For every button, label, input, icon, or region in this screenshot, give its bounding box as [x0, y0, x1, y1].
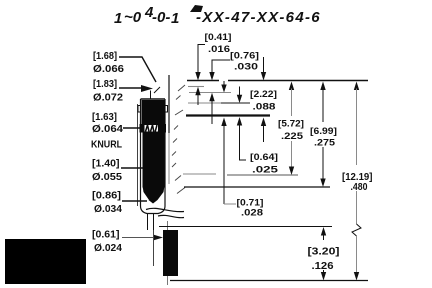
svg-text:[0.86]: [0.86]: [92, 191, 121, 202]
line L8 pcb top: [159, 226, 332, 228]
title part number right: [190, 5, 203, 12]
svg-text:[1.68]: [1.68]: [93, 51, 117, 62]
svg-text:Ø.066: Ø.066: [93, 64, 124, 75]
pin centerline above: [150, 91, 152, 100]
svg-text:.030: .030: [234, 62, 258, 72]
svg-text:[0.41]: [0.41]: [205, 32, 232, 42]
leader for [1.63]: [123, 127, 140, 129]
svg-text:[1.83]: [1.83]: [93, 79, 117, 90]
[3.20] stems and arrows: [321, 227, 326, 236]
pin body black: [143, 133, 165, 188]
svg-text:[3.20]: [3.20]: [308, 246, 340, 258]
svg-text:.126: .126: [312, 260, 334, 272]
svg-text:.016: .016: [208, 44, 230, 54]
svg-text:1: 1: [171, 10, 179, 27]
hole wall right line: [168, 75, 170, 133]
svg-text:Ø.034: Ø.034: [94, 204, 122, 215]
svg-text:[0.71]: [0.71]: [237, 198, 264, 208]
leader for [1.68]: [119, 57, 156, 82]
break symbol: [352, 224, 361, 236]
section hatching: [172, 85, 185, 194]
svg-text:[0.64]: [0.64]: [250, 152, 278, 162]
hole wall left line: [137, 104, 139, 206]
pcb section bar: [163, 230, 178, 276]
surface tick: [154, 87, 160, 93]
[0.71] stems and arrows: [223, 81, 225, 88]
pin flange right: [165, 106, 168, 113]
svg-text:-0-: -0-: [152, 9, 170, 26]
leader for [1.40]: [121, 167, 144, 169]
redacted logo block: [5, 239, 86, 284]
pin body taper tip: [143, 186, 165, 200]
svg-text:.225: .225: [281, 131, 303, 141]
svg-text:Ø.055: Ø.055: [92, 172, 122, 183]
svg-text:Ø.072: Ø.072: [93, 93, 123, 104]
svg-text:[2.22]: [2.22]: [250, 89, 277, 99]
[2.22] stems and arrows: [239, 87, 241, 97]
line L1 top surface: [187, 80, 219, 82]
line L7: [184, 186, 330, 188]
[0.64] stems and arrows: [261, 72, 266, 81]
break squiggle upper: [146, 208, 184, 211]
line L2: [188, 86, 204, 88]
break squiggle lower: [158, 215, 184, 217]
line L4: [188, 102, 221, 104]
[6.99] stems and arrows: [320, 82, 325, 91]
svg-text:[1.40]: [1.40]: [92, 159, 120, 170]
svg-text:.088: .088: [253, 102, 276, 112]
svg-text:.275: .275: [314, 138, 335, 148]
pin head black cap: [142, 100, 166, 124]
pin flange left: [138, 106, 141, 113]
svg-text:1: 1: [114, 10, 122, 27]
leader arrow for [1.83]: [119, 87, 143, 89]
svg-text:~0: ~0: [124, 9, 142, 26]
pcb centerline: [167, 221, 169, 230]
pin shell outline: [141, 98, 166, 100]
svg-text:.025: .025: [252, 165, 278, 175]
tail neck outline: [147, 214, 149, 231]
leader for [0.86]: [122, 200, 147, 202]
svg-text:[6.99]: [6.99]: [310, 126, 337, 136]
line L9 pcb bottom: [170, 280, 368, 282]
svg-text:-XX-47-XX-64-6: -XX-47-XX-64-6: [196, 9, 321, 26]
svg-text:Ø.024: Ø.024: [94, 243, 122, 254]
line L5: [186, 114, 270, 116]
tail edge line: [153, 230, 155, 266]
knurl band: [140, 124, 167, 133]
svg-text:[1.63]: [1.63]: [92, 112, 117, 123]
svg-text:KNURL: KNURL: [91, 140, 122, 151]
line L6: [183, 173, 216, 175]
[0.76] stems and arrows: [212, 60, 230, 74]
svg-text:[0.76]: [0.76]: [230, 51, 259, 61]
[12.19] stems and arrows: [354, 82, 359, 91]
svg-text:.480: .480: [351, 181, 368, 193]
svg-text:[0.61]: [0.61]: [92, 230, 120, 241]
line L3: [189, 92, 231, 94]
[0.41] stems and arrows: [198, 45, 205, 75]
svg-text:Ø.064: Ø.064: [92, 124, 123, 135]
[5.72] stems and arrows: [289, 82, 294, 91]
svg-text:.028: .028: [241, 208, 263, 218]
svg-text:[5.72]: [5.72]: [278, 119, 304, 129]
leader arrow for [0.61]: [122, 237, 154, 239]
